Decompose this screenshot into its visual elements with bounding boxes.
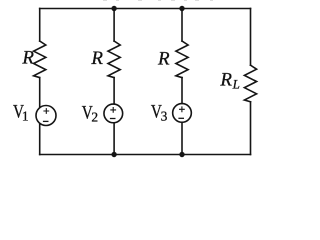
wire RL top stub — [250, 9, 252, 66]
resistor RL — [244, 65, 256, 102]
plus sign V3 — [179, 106, 185, 112]
plus sign V2 — [110, 107, 116, 113]
wire branch3 top stub — [181, 9, 183, 42]
voltage source V1 — [36, 106, 56, 126]
minus sign V2 — [110, 118, 116, 120]
svg-text:R: R — [157, 48, 170, 69]
wire branch1 bottom stub — [39, 124, 41, 155]
svg-text:R: R — [219, 69, 232, 90]
resistor R2 — [108, 41, 120, 78]
wire bottom bus — [40, 154, 251, 156]
resistor R3 — [176, 41, 188, 78]
voltage source V2 — [104, 104, 123, 123]
svg-text:L: L — [232, 76, 240, 91]
svg-text:1: 1 — [22, 108, 29, 123]
wire branch3 middle stub — [181, 78, 183, 104]
minus sign V1 — [43, 120, 49, 122]
plus sign V1 — [43, 108, 49, 114]
wire branch2 bottom stub — [113, 123, 115, 155]
svg-text:3: 3 — [161, 108, 168, 123]
node bottom junction branch3 — [179, 152, 184, 157]
resistor R1 — [34, 41, 46, 78]
node bottom junction branch2 — [111, 152, 116, 157]
svg-text:2: 2 — [91, 109, 98, 124]
wire RL bottom stub — [250, 102, 252, 155]
node top junction branch2 — [111, 6, 116, 11]
wire branch2 middle stub — [113, 78, 115, 104]
minus sign V3 — [178, 117, 184, 119]
wire branch2 top stub — [113, 9, 115, 42]
svg-text:R: R — [21, 48, 34, 69]
cropped text remnant at top edge — [103, 0, 107, 1]
wire branch1 middle stub — [39, 78, 41, 108]
wire branch3 bottom stub — [181, 123, 183, 155]
node top junction branch3 — [179, 6, 184, 11]
svg-text:R: R — [90, 48, 103, 69]
voltage source V3 — [173, 104, 192, 123]
wire branch1 top stub — [39, 9, 41, 42]
wire top bus — [40, 8, 251, 10]
